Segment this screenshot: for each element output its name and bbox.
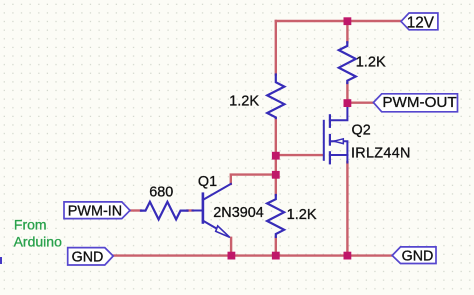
- svg-text:PWM-OUT: PWM-OUT: [382, 94, 456, 111]
- svg-text:Q1: Q1: [198, 174, 217, 190]
- svg-text:Arduino: Arduino: [14, 234, 62, 250]
- svg-text:680: 680: [149, 185, 173, 201]
- svg-text:Q2: Q2: [352, 123, 371, 139]
- svg-text:IRLZ44N: IRLZ44N: [351, 145, 411, 161]
- svg-text:1.2K: 1.2K: [287, 207, 317, 223]
- svg-text:PWM-IN: PWM-IN: [68, 204, 122, 220]
- svg-text:GND: GND: [402, 249, 434, 265]
- svg-text:2N3904: 2N3904: [213, 205, 263, 221]
- svg-text:GND: GND: [72, 249, 104, 265]
- svg-text:1.2K: 1.2K: [356, 55, 386, 71]
- svg-text:From: From: [14, 217, 47, 233]
- svg-text:12V: 12V: [407, 14, 435, 31]
- svg-text:1.2K: 1.2K: [229, 93, 259, 109]
